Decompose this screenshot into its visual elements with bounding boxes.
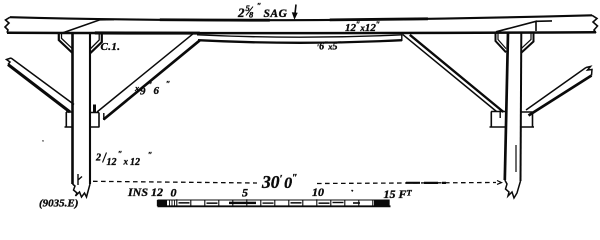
left knee bracket left of left post (59, 33, 73, 53)
bolt mark k in left post foot (78, 174, 82, 185)
svg-text:x: x (123, 157, 129, 167)
broken sway brace right, lower shadowed edge (529, 76, 592, 116)
right post right edge (520, 33, 523, 181)
smeared dash blobs (406, 182, 446, 184)
svg-text:″: ″ (148, 151, 152, 160)
broken sway brace to adjacent bent, right upper edge (526, 68, 586, 111)
arrow tick at right post (497, 181, 502, 185)
svg-text:12: 12 (107, 157, 117, 168)
left brace end cut (103, 113, 105, 120)
label 9x6 on brace (134, 80, 170, 98)
left knee bracket on right post (496, 33, 507, 52)
split line in right post foot (515, 145, 517, 172)
6x5 straining piece top edge (197, 35, 402, 37)
alternating shading (179, 200, 390, 206)
right broken end of stringer (592, 15, 598, 33)
right sway-brace splice block (490, 112, 535, 128)
6x5 straining piece bottom edge (198, 40, 402, 43)
right post left edge (505, 33, 508, 180)
svg-text:″: ″ (166, 80, 170, 89)
left post jagged driven tip (73, 184, 91, 197)
scale bar (158, 199, 391, 206)
label 2/12 x 12 (95, 150, 152, 169)
left sway-brace splice block (65, 112, 100, 127)
left post (pile) left edge (71, 33, 74, 184)
right brace head tick (401, 34, 403, 41)
rough thick patches on chords (10, 15, 592, 20)
30 ft dashed dimension line right part (317, 183, 496, 184)
svg-text:8: 8 (249, 10, 254, 20)
sag arrow (295, 5, 296, 16)
broken sway brace to adjacent bent, left upper edge (11, 58, 74, 105)
svg-text:30′0″: 30′0″ (261, 172, 298, 192)
left brace foot junction (93, 105, 96, 113)
left diagonal brace 9x6 lower shadowed edge (104, 40, 201, 119)
ink speck left of post (43, 140, 44, 143)
svg-text:(9035.E): (9035.E) (39, 198, 78, 210)
stringer top chord (sagging line) (10, 15, 592, 20)
svg-text:15 FT: 15 FT (384, 187, 413, 201)
svg-text:C.1.: C.1. (101, 41, 121, 53)
right corbel wedge on post cap (496, 21, 552, 32)
left diagonal brace 9x6 upper edge (97, 34, 193, 112)
left post right edge (89, 33, 91, 184)
ink speck above scale bar (352, 190, 354, 191)
broken sway brace left, lower shadowed edge (8, 65, 70, 113)
broken end zigzag right (586, 67, 592, 76)
right diagonal brace lower shadowed edge (410, 35, 504, 112)
left broken end of stringer (5, 17, 10, 33)
svg-text:″: ″ (118, 150, 122, 159)
left corbel wedge on post cap (63, 20, 114, 33)
right post jagged driven tip (505, 180, 521, 198)
svg-text:2: 2 (95, 153, 101, 164)
right knee bracket right of left post (90, 33, 102, 53)
broken end zigzag left (7, 58, 12, 65)
svg-text:0: 0 (171, 186, 177, 200)
svg-text:12″x12″: 12″x12″ (345, 20, 380, 34)
bar outline (158, 199, 390, 201)
svg-text:9: 9 (140, 86, 146, 98)
label 2 5/8 SAG (237, 2, 288, 20)
right knee bracket on right post (521, 33, 534, 53)
svg-text:INS 12: INS 12 (127, 185, 163, 199)
svg-text:″: ″ (148, 81, 152, 90)
svg-text:10: 10 (312, 185, 324, 199)
svg-text:SAG: SAG (264, 8, 288, 20)
right diagonal brace upper edge (403, 34, 497, 111)
svg-text:5: 5 (242, 186, 248, 200)
svg-text:2: 2 (237, 5, 245, 20)
svg-text:″: ″ (257, 2, 261, 11)
foot ticks (177, 199, 373, 206)
svg-text:6: 6 (154, 85, 160, 97)
right brace end cut (499, 111, 501, 119)
inch divisions block (158, 200, 167, 205)
svg-text:12: 12 (130, 157, 140, 168)
stringer bottom chord (7, 31, 596, 34)
svg-text:′6″x5″: ′6″x5″ (317, 40, 342, 53)
30 ft dashed dimension line left part (93, 181, 257, 183)
